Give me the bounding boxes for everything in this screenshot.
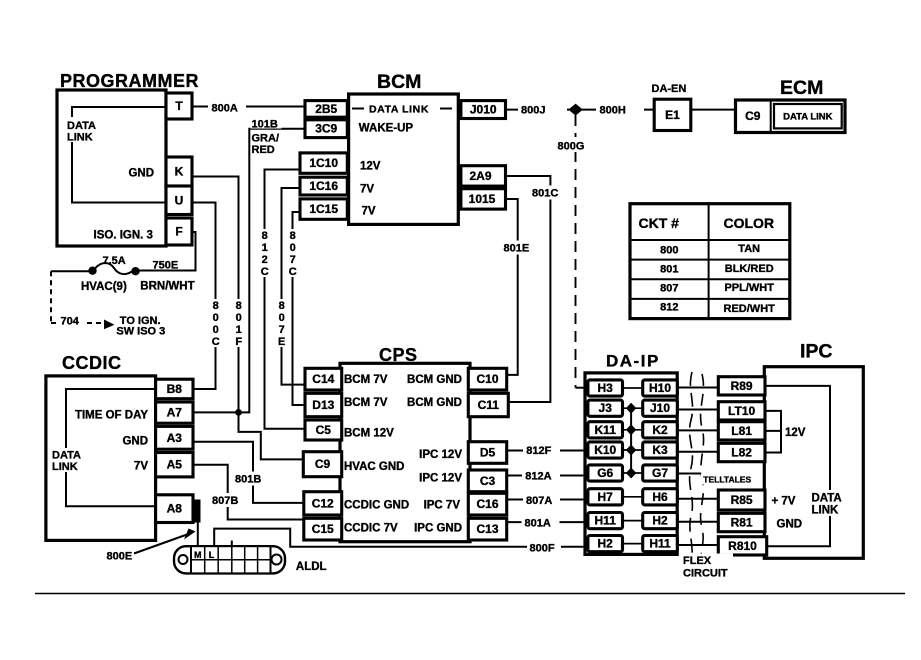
svg-text:RED: RED xyxy=(252,144,275,156)
IPC pin L81 xyxy=(718,422,765,440)
wire 800C (programmer U down to CCDIC B8) xyxy=(192,203,216,390)
svg-text:H6: H6 xyxy=(652,490,668,504)
svg-text:LINK: LINK xyxy=(67,132,93,144)
pin C9 xyxy=(303,452,341,477)
svg-text:GND: GND xyxy=(128,168,154,180)
wire 807A (CPS C16 to DA-IP H7) xyxy=(507,499,588,501)
wire programmer internal data link (T to U) xyxy=(72,107,166,203)
svg-text:800J: 800J xyxy=(521,105,545,117)
CPS box xyxy=(340,363,470,541)
svg-text:K2: K2 xyxy=(652,423,668,437)
wire 704 to ign sw xyxy=(51,322,103,324)
pin 1D15 (1015) xyxy=(461,189,506,209)
pin A5 xyxy=(156,453,193,477)
wire CCDIC internal data link bracket (B8 to A8) xyxy=(66,389,156,506)
pin C15 xyxy=(304,518,342,540)
svg-text:CPS: CPS xyxy=(379,345,418,365)
node junction diamond 800J/800H/800G xyxy=(568,104,582,116)
flex circuit squiggle right xyxy=(701,374,704,566)
svg-text:A5: A5 xyxy=(167,458,183,472)
pin J010 xyxy=(461,101,506,119)
node diamond G6/G7 xyxy=(626,468,636,479)
svg-text:C13: C13 xyxy=(476,522,498,536)
label 812A xyxy=(522,469,560,482)
svg-text:D5: D5 xyxy=(480,446,496,460)
svg-text:A3: A3 xyxy=(167,431,183,445)
svg-text:L82: L82 xyxy=(731,446,752,460)
wire 801F (programmer K down to CPS C9) xyxy=(192,177,304,460)
label 801C xyxy=(529,186,565,200)
svg-text:R810: R810 xyxy=(728,539,757,553)
svg-text:800A: 800A xyxy=(212,103,238,115)
svg-text:C10: C10 xyxy=(476,372,498,386)
svg-text:3C9: 3C9 xyxy=(315,122,337,136)
svg-text:CKT #: CKT # xyxy=(639,215,680,231)
svg-text:801F: 801F xyxy=(235,300,242,348)
svg-text:HVAC(9): HVAC(9) xyxy=(81,281,127,293)
svg-text:800F: 800F xyxy=(530,543,555,555)
wire 800A (programmer T to BCM 2B5) xyxy=(192,106,305,108)
BCM box xyxy=(349,94,459,224)
svg-text:DATA LINK: DATA LINK xyxy=(369,104,429,116)
flex circuit squiggle left xyxy=(690,372,693,562)
wire 800F (ALDL pin L to DA-IP H2) xyxy=(214,529,588,547)
label 812F xyxy=(523,444,560,457)
wire 807E (BCM 1C16 down to CPS C14) xyxy=(282,188,307,385)
pin C5 xyxy=(305,420,342,440)
pin C11 xyxy=(468,393,508,416)
DA-IP left pins H3 J3 K11 K10 G6 H7 H11 H2 xyxy=(588,380,623,396)
pin K xyxy=(166,157,192,186)
node diamond K11/K2 xyxy=(626,424,636,435)
node diamond K10/K3 xyxy=(626,445,636,456)
svg-text:DA-IP: DA-IP xyxy=(606,352,660,371)
label 800F xyxy=(527,541,561,554)
svg-text:BCM 7V: BCM 7V xyxy=(344,374,388,386)
svg-text:GND: GND xyxy=(777,519,803,531)
svg-text:H11: H11 xyxy=(649,537,671,551)
wire DA-IP H11 to IPC R810 xyxy=(677,544,719,546)
separator line bottom xyxy=(35,593,905,595)
svg-text:ALDL: ALDL xyxy=(296,561,327,573)
svg-text:704: 704 xyxy=(61,316,80,328)
LABELS-LAYER xyxy=(50,71,850,580)
svg-text:801A: 801A xyxy=(525,518,551,530)
svg-text:WAKE-UP: WAKE-UP xyxy=(359,123,414,135)
programmer data link label xyxy=(64,117,104,142)
svg-text:7V: 7V xyxy=(360,184,374,196)
svg-text:J010: J010 xyxy=(470,103,497,117)
svg-text:R89: R89 xyxy=(731,379,753,393)
IPC pin L82 xyxy=(718,443,765,461)
svg-text:K10: K10 xyxy=(594,443,616,457)
svg-text:M: M xyxy=(194,550,202,560)
svg-text:7V: 7V xyxy=(134,461,148,473)
svg-text:F: F xyxy=(175,225,182,239)
pin C10 xyxy=(468,368,506,390)
IPC data link label xyxy=(808,490,850,516)
svg-text:807A: 807A xyxy=(526,495,552,507)
svg-text:LINK: LINK xyxy=(812,505,840,517)
ECM C9 divider xyxy=(770,100,772,133)
label 801B xyxy=(232,472,268,486)
pin 1C15 xyxy=(300,199,347,219)
IPC pin R85 xyxy=(718,490,765,510)
node diamond J3/J10 xyxy=(626,403,636,414)
wire DA-IP H6 to IPC R85 xyxy=(677,498,719,500)
svg-text:DA-EN: DA-EN xyxy=(652,83,687,95)
svg-text:A8: A8 xyxy=(167,502,183,516)
svg-text:CCDIC GND: CCDIC GND xyxy=(344,500,409,512)
svg-text:PROGRAMMER: PROGRAMMER xyxy=(60,71,199,91)
wire E1 to ECM C9 xyxy=(691,109,736,111)
wire DA-IP G7 to telltales xyxy=(677,473,701,475)
svg-text:G7: G7 xyxy=(652,466,668,480)
label 807B xyxy=(209,493,245,507)
svg-text:RED/WHT: RED/WHT xyxy=(724,303,776,315)
svg-text:IPC 12V: IPC 12V xyxy=(419,449,462,461)
ALDL connector shell xyxy=(174,546,285,573)
wire dashed drop to 704 xyxy=(50,271,52,323)
IPC pin R89 xyxy=(718,377,765,395)
ECM box xyxy=(736,100,846,133)
wire IPC data link loop (R89 to R810) xyxy=(765,386,830,546)
svg-text:812A: 812A xyxy=(525,471,551,483)
svg-text:BCM: BCM xyxy=(377,71,421,93)
svg-text:LT10: LT10 xyxy=(728,404,755,418)
pin 2B5 xyxy=(305,101,347,118)
svg-text:BCM 12V: BCM 12V xyxy=(344,428,394,440)
pin F xyxy=(166,218,192,245)
label 801E xyxy=(501,241,537,255)
IPC box xyxy=(764,367,863,559)
svg-text:C15: C15 xyxy=(312,522,334,536)
svg-text:R81: R81 xyxy=(731,516,753,530)
relay E1 box xyxy=(654,99,691,130)
svg-text:D13: D13 xyxy=(312,398,334,412)
svg-text:812: 812 xyxy=(660,302,678,314)
svg-text:H2: H2 xyxy=(652,514,668,528)
svg-text:SW ISO 3: SW ISO 3 xyxy=(116,326,165,338)
svg-text:BCM GND: BCM GND xyxy=(407,374,462,386)
svg-text:IPC 12V: IPC 12V xyxy=(419,473,462,485)
svg-text:R85: R85 xyxy=(731,493,753,507)
wire DA-IP K2 to IPC L81 xyxy=(677,429,719,431)
svg-text:C14: C14 xyxy=(312,372,334,386)
svg-text:2B5: 2B5 xyxy=(315,102,337,116)
DA-IP right pins H10 J10 K2 K3 G7 H6 H2 H11 xyxy=(643,380,678,396)
pin T xyxy=(166,93,192,119)
fuse F1 7.5A xyxy=(88,267,96,275)
svg-text:DATA LINK: DATA LINK xyxy=(783,112,833,123)
pin 1C10 xyxy=(300,153,347,173)
svg-text:L: L xyxy=(209,550,215,560)
ECM data link inner box xyxy=(774,104,842,128)
svg-text:HVAC GND: HVAC GND xyxy=(344,461,404,473)
svg-text:+ 7V: + 7V xyxy=(772,496,796,508)
wire DA-IP K3 to IPC L82 xyxy=(677,451,719,453)
pin A8 xyxy=(156,495,193,523)
svg-text:PPL/WHT: PPL/WHT xyxy=(724,282,774,294)
svg-text:801: 801 xyxy=(660,264,678,276)
svg-text:CIRCUIT: CIRCUIT xyxy=(683,568,728,580)
pin C13 xyxy=(468,518,506,540)
svg-text:A7: A7 xyxy=(167,406,183,420)
svg-text:FLEX: FLEX xyxy=(683,555,712,567)
svg-text:GND: GND xyxy=(122,436,148,448)
BCM data link label with dashes xyxy=(352,108,452,110)
svg-text:BRN/WHT: BRN/WHT xyxy=(140,281,194,293)
label 101B GRA/RED xyxy=(251,118,282,129)
svg-text:LINK: LINK xyxy=(52,461,78,473)
svg-text:807C: 807C xyxy=(289,230,297,278)
svg-text:ECM: ECM xyxy=(780,77,823,99)
svg-text:807: 807 xyxy=(660,283,678,295)
svg-text:IPC: IPC xyxy=(800,341,833,363)
pin D5 xyxy=(468,442,506,464)
svg-text:1C15: 1C15 xyxy=(309,202,338,216)
svg-text:801C: 801C xyxy=(532,188,558,200)
svg-text:C16: C16 xyxy=(476,497,498,511)
svg-text:B8: B8 xyxy=(167,382,183,396)
svg-text:T: T xyxy=(175,99,183,113)
svg-text:C9: C9 xyxy=(745,109,761,123)
svg-text:1015: 1015 xyxy=(469,192,496,206)
svg-text:TAN: TAN xyxy=(738,243,760,255)
svg-text:H10: H10 xyxy=(649,381,671,395)
svg-text:K11: K11 xyxy=(595,423,617,437)
ALDL pin grid xyxy=(191,546,271,573)
CCDIC data link label xyxy=(50,448,85,472)
wire 812A (CPS C3 to DA-IP G6) xyxy=(507,475,588,477)
label 800A xyxy=(208,100,246,113)
svg-text:7.5A: 7.5A xyxy=(103,255,126,267)
svg-text:807B: 807B xyxy=(212,495,238,507)
label TELLTALES xyxy=(701,474,755,485)
node junction dot on A7 wire at 801F xyxy=(235,409,242,416)
svg-text:H11: H11 xyxy=(595,514,617,528)
pin A3 xyxy=(156,426,193,449)
svg-text:812F: 812F xyxy=(526,445,551,457)
DA-IP row stubs xyxy=(623,388,643,544)
svg-text:800H: 800H xyxy=(600,105,626,117)
DA-IP connector box xyxy=(585,373,677,555)
svg-text:U: U xyxy=(175,194,184,208)
vertical label 807C xyxy=(287,229,299,277)
IPC pin R810 xyxy=(718,537,766,555)
wire DA-IP H2 to IPC R81 xyxy=(677,521,719,523)
vertical label 800C xyxy=(210,299,222,347)
wire 807B (CCDIC A5 to CPS C15) xyxy=(193,465,304,520)
svg-text:DATA: DATA xyxy=(52,450,81,462)
pin A8 black tab xyxy=(193,500,201,523)
svg-text:BLK/RED: BLK/RED xyxy=(725,263,774,275)
wire 800E arrow to A8/ALDL lead xyxy=(134,535,187,554)
wire 801A (CPS C13 to DA-IP H11) xyxy=(507,521,588,523)
ALDL top pin tick xyxy=(231,541,233,547)
svg-text:IPC 7V: IPC 7V xyxy=(424,500,461,512)
svg-text:7V: 7V xyxy=(362,206,376,218)
IPC pin LT10 xyxy=(718,402,765,420)
svg-text:807E: 807E xyxy=(278,300,285,348)
pin C3 xyxy=(468,470,506,492)
svg-text:801E: 801E xyxy=(504,243,530,255)
svg-text:2A9: 2A9 xyxy=(469,169,491,183)
ALDL right eyelet xyxy=(272,555,282,565)
wire 801E (BCM 1D15 down to CPS C10) xyxy=(506,199,518,375)
svg-text:12V: 12V xyxy=(360,161,381,173)
svg-text:C9: C9 xyxy=(315,457,331,471)
svg-text:1C16: 1C16 xyxy=(309,179,338,193)
pin U xyxy=(166,186,192,215)
svg-text:812C: 812C xyxy=(261,230,269,278)
svg-text:C12: C12 xyxy=(312,496,334,510)
svg-text:1C10: 1C10 xyxy=(309,156,338,170)
svg-text:800C: 800C xyxy=(212,300,220,348)
svg-text:C3: C3 xyxy=(480,474,496,488)
vertical label 801F xyxy=(233,299,245,347)
svg-text:BCM 7V: BCM 7V xyxy=(344,397,388,409)
pin B8 xyxy=(156,379,193,399)
svg-text:H2: H2 xyxy=(598,537,614,551)
IPC pin R81 xyxy=(718,513,765,531)
wire HVAC(9) BRN/WHT (fuse to dashed drop) xyxy=(51,270,93,272)
svg-text:K: K xyxy=(175,165,184,179)
svg-text:TELLTALES: TELLTALES xyxy=(703,475,751,485)
svg-text:J10: J10 xyxy=(650,401,670,415)
wire 807C (BCM 1C15 down to CPS D13) xyxy=(293,212,307,405)
svg-text:101B: 101B xyxy=(252,119,278,131)
svg-text:G6: G6 xyxy=(597,466,613,480)
wire 801C (BCM 2A9 down to CPS C11) xyxy=(506,176,551,402)
wire 812C (BCM 1C10 down to CPS C5) xyxy=(265,170,307,429)
vertical label 807E xyxy=(276,299,288,347)
wire DA-IP H10 to IPC R89 xyxy=(677,387,719,389)
label 801A xyxy=(522,516,560,529)
arrowhead to ign sw xyxy=(104,320,115,330)
label 800H xyxy=(596,102,644,116)
svg-text:TIME OF DAY: TIME OF DAY xyxy=(75,410,148,422)
programmer U1 box xyxy=(57,90,166,246)
wire 800G dashed (junction down to DA-IP H3) xyxy=(575,115,577,388)
pin A7 xyxy=(156,402,193,423)
svg-text:800: 800 xyxy=(660,245,678,257)
svg-text:C5: C5 xyxy=(316,423,332,437)
pin C12 xyxy=(304,492,342,515)
wire DA-IP J10 to IPC LT10 xyxy=(677,409,719,411)
ALDL left eyelet xyxy=(179,555,188,564)
svg-text:E1: E1 xyxy=(665,108,680,122)
pin 2A9 xyxy=(461,166,506,186)
svg-text:IPC GND: IPC GND xyxy=(414,523,462,535)
label FLEX CIRCUIT xyxy=(680,554,733,579)
svg-text:BCM GND: BCM GND xyxy=(407,397,462,409)
svg-text:800E: 800E xyxy=(107,551,133,563)
pin 3C9 xyxy=(305,120,347,138)
svg-text:DATA: DATA xyxy=(812,493,842,505)
wire CCDIC A8 to ALDL pin M xyxy=(197,521,199,547)
svg-text:ISO. IGN. 3: ISO. IGN. 3 xyxy=(94,230,153,242)
svg-text:750E: 750E xyxy=(153,260,179,272)
svg-text:COLOR: COLOR xyxy=(724,215,775,231)
pin C14 xyxy=(305,368,342,390)
svg-text:J3: J3 xyxy=(599,401,613,415)
wire 801B (CCDIC A3 to CPS C12) xyxy=(193,442,304,503)
label 704 xyxy=(58,315,85,327)
pin 1C16 xyxy=(300,177,347,195)
wire 750E (programmer F to fuse) xyxy=(137,232,196,271)
label 807A xyxy=(523,494,560,507)
svg-text:L81: L81 xyxy=(731,424,752,438)
pin D13 xyxy=(305,393,342,416)
wire 812F (CPS D5 to DA-IP K10) xyxy=(507,450,588,452)
BOXES-LAYER xyxy=(46,90,863,573)
wire 101B GRA/RED (BCM 3C9 down to CCDIC A7) xyxy=(193,129,305,413)
wire IPC 12V bracket (LT10/L81/L82) xyxy=(765,411,781,453)
label 800J xyxy=(518,102,567,116)
svg-text:800G: 800G xyxy=(558,141,585,153)
svg-text:H7: H7 xyxy=(598,490,614,504)
wire 800J (BCM J010 to junction) xyxy=(506,109,655,111)
svg-text:801B: 801B xyxy=(235,474,261,486)
svg-text:CCDIC 7V: CCDIC 7V xyxy=(344,523,398,535)
CCDIC box xyxy=(46,376,156,541)
svg-text:H3: H3 xyxy=(598,381,614,395)
pin C16 xyxy=(468,493,506,515)
wire color table xyxy=(630,204,790,319)
svg-text:CCDIC: CCDIC xyxy=(62,353,122,373)
svg-text:K3: K3 xyxy=(652,443,668,457)
vertical label 812C xyxy=(259,229,271,277)
label 800G xyxy=(555,137,592,152)
svg-text:12V: 12V xyxy=(785,427,806,439)
DA-IP center bus xyxy=(630,408,632,473)
svg-text:C11: C11 xyxy=(478,398,500,412)
svg-text:DATA: DATA xyxy=(67,120,96,132)
WIRES-LAYER xyxy=(35,104,905,594)
svg-text:GRA/: GRA/ xyxy=(252,133,280,145)
